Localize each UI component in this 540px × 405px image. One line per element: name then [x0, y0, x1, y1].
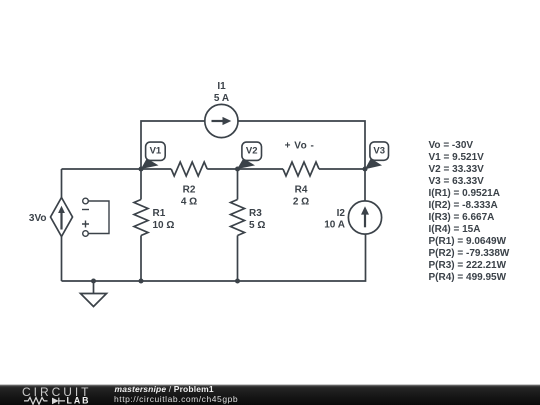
node V3 label box: [370, 142, 389, 160]
node V1 junction dot: [139, 167, 144, 172]
R3 bottom junction dot: [235, 279, 240, 284]
ground junction dot: [91, 279, 96, 284]
svg-text:P(R1) = 9.0649W: P(R1) = 9.0649W: [429, 236, 507, 247]
wire top-left rail from dependent source to node V1: [62, 168, 142, 170]
wire sense bracket: [88, 201, 109, 234]
wire R3 bottom lead to ground rail: [237, 236, 239, 282]
CircuitLab logo diode: [52, 398, 59, 405]
wire V1 down to R1 top lead: [140, 169, 142, 200]
footer bar: [0, 385, 540, 405]
svg-text:P(R4) = 499.95W: P(R4) = 499.95W: [429, 272, 507, 283]
wire R2 right lead to node V2: [207, 168, 237, 170]
resistor R3 zigzag: [231, 200, 245, 236]
svg-text:V2: V2: [246, 146, 258, 157]
svg-text:Vo = -30V: Vo = -30V: [429, 140, 474, 151]
dependent source arrow: [60, 213, 62, 230]
ground stub: [93, 281, 95, 294]
svg-text:R1: R1: [153, 208, 166, 219]
node V1 label box: [146, 142, 166, 160]
R1 bottom junction dot: [139, 279, 144, 284]
svg-text:+ Vo -: + Vo -: [285, 141, 315, 152]
node V3 junction dot: [363, 167, 368, 172]
svg-text:10 A: 10 A: [324, 220, 345, 231]
I1 arrow: [212, 120, 224, 122]
svg-text:LAB: LAB: [67, 396, 89, 405]
wire V1 to R2 left lead: [141, 168, 171, 170]
resistor R2 zigzag: [171, 162, 207, 176]
svg-text:I(R4) = 15A: I(R4) = 15A: [429, 224, 481, 235]
resistor R4 zigzag: [283, 162, 319, 176]
svg-text:R3: R3: [249, 208, 262, 219]
dependent source diamond: [51, 198, 73, 237]
svg-text:5 A: 5 A: [214, 93, 229, 104]
resistor R1 zigzag: [134, 200, 148, 236]
voltage sense terminal bottom circle: [83, 231, 89, 237]
svg-text:5 Ω: 5 Ω: [249, 220, 265, 231]
svg-text:I(R1) = 0.9521A: I(R1) = 0.9521A: [429, 188, 500, 199]
wire I1 branch: V1 up, across to I1, from I1 to V3 column, down to V3: [141, 121, 365, 169]
svg-text:10 Ω: 10 Ω: [153, 220, 175, 231]
svg-text:V3 = 63.33V: V3 = 63.33V: [429, 176, 485, 187]
ground triangle: [81, 294, 107, 307]
wire dependent source bottom stub: [61, 237, 63, 282]
svg-text:4 Ω: 4 Ω: [181, 197, 197, 208]
node V3 label tail: [365, 158, 382, 169]
voltage sense terminal top circle: [83, 198, 89, 204]
svg-text:I1: I1: [217, 81, 226, 92]
svg-text:3Vo: 3Vo: [29, 213, 47, 224]
wire dependent source top stub: [61, 169, 63, 198]
node V2 label tail: [237, 158, 255, 169]
wire R4 right lead to node V3: [319, 168, 365, 170]
I2 arrow: [364, 214, 366, 227]
node V2 label box: [242, 142, 262, 160]
svg-text:V3: V3: [373, 146, 385, 157]
voltage sense minus sign: [82, 209, 89, 211]
wire R1 bottom lead to ground rail: [140, 236, 142, 282]
svg-text:V1: V1: [150, 146, 162, 157]
svg-text:http://circuitlab.com/ch45gpb: http://circuitlab.com/ch45gpb: [114, 394, 238, 404]
current source I1 circle: [205, 104, 238, 137]
node V1 label tail: [141, 158, 159, 169]
CircuitLab logo resistor squiggle: [24, 398, 48, 405]
wire V2 down to R3 top lead: [237, 169, 239, 200]
wire bottom rail: [62, 234, 366, 281]
svg-text:I(R2) = -8.333A: I(R2) = -8.333A: [429, 200, 498, 211]
current source I2 circle: [348, 201, 381, 234]
svg-text:2 Ω: 2 Ω: [293, 197, 309, 208]
svg-text:V2 = 33.33V: V2 = 33.33V: [429, 164, 485, 175]
node V2 junction dot: [235, 167, 240, 172]
svg-text:V1 = 9.521V: V1 = 9.521V: [429, 152, 485, 163]
svg-text:P(R3) = 222.21W: P(R3) = 222.21W: [429, 260, 507, 271]
svg-text:P(R2) = -79.338W: P(R2) = -79.338W: [429, 248, 510, 259]
svg-text:mastersnipe / Problem1: mastersnipe / Problem1: [115, 384, 214, 394]
svg-text:R2: R2: [183, 185, 196, 196]
svg-text:I2: I2: [337, 208, 346, 219]
svg-text:I(R3) = 6.667A: I(R3) = 6.667A: [429, 212, 495, 223]
voltage sense plus sign: [82, 221, 89, 228]
wire V2 to R4 left lead: [238, 168, 284, 170]
wire I2 top lead to V3: [364, 169, 366, 201]
svg-text:R4: R4: [295, 185, 308, 196]
